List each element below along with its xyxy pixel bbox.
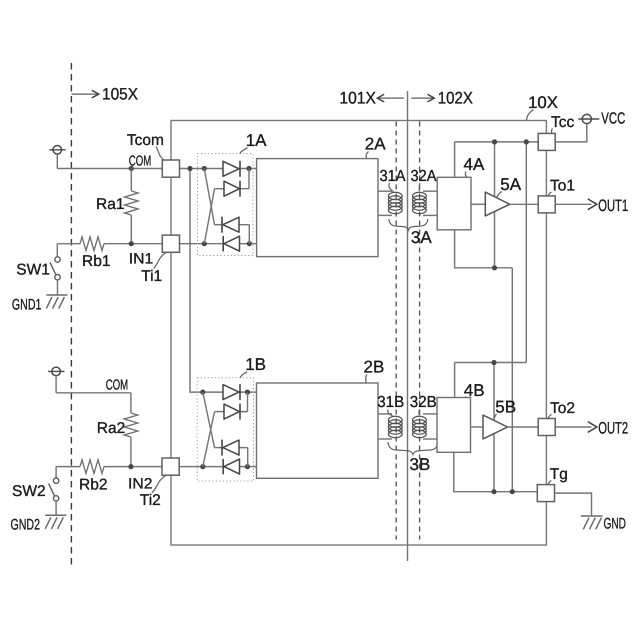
terminal Ti1 — [162, 235, 179, 252]
svg-text:IN2: IN2 — [128, 476, 153, 493]
wire 1B D2 anode stub — [215, 411, 225, 413]
node IN1 junction — [129, 241, 134, 246]
wire 1B cross diagonal lower-to-upper — [203, 412, 215, 467]
svg-text:4A: 4A — [464, 155, 485, 174]
junction 1B bottom-left — [200, 464, 205, 469]
diode 1A D4 — [224, 236, 240, 251]
resistor Ra1 — [130, 169, 132, 192]
svg-text:31B: 31B — [377, 394, 404, 411]
svg-text:Rb2: Rb2 — [79, 477, 107, 494]
wire 1A D2 anode stub — [215, 188, 225, 190]
wire 1B D2 cathode to top — [240, 392, 248, 412]
op-amp 5B — [483, 415, 508, 439]
junction COM drop — [187, 166, 192, 171]
svg-text:IN1: IN1 — [129, 251, 154, 268]
wire VCC to Tcc — [555, 124, 587, 142]
junction 1A top-left — [202, 166, 207, 171]
svg-text:Tg: Tg — [550, 466, 568, 483]
wire 32B bottom stub — [423, 438, 437, 440]
switch SW1 — [56, 244, 58, 257]
leader Tg — [548, 481, 551, 485]
diode 1B D1 — [223, 385, 239, 400]
diode bridge 1B dotted box — [197, 378, 253, 481]
leader Ti2 — [152, 476, 166, 493]
arrow 101X — [378, 97, 404, 99]
wire 5A output to To1 — [510, 203, 539, 205]
svg-text:Ti2: Ti2 — [140, 492, 161, 509]
svg-text:OUT2: OUT2 — [598, 420, 628, 438]
svg-text:1A: 1A — [246, 131, 267, 150]
wire 1A D3 anode to IN1 — [239, 225, 249, 244]
wire 31B bottom stub — [378, 438, 392, 440]
isolation dashed line left — [395, 122, 397, 540]
svg-text:105X: 105X — [102, 86, 138, 104]
svg-text:102X: 102X — [438, 88, 473, 107]
svg-text:31A: 31A — [380, 168, 406, 185]
transformer coil 31A — [388, 192, 402, 213]
diode bridge 1A dotted box — [198, 154, 254, 256]
wire 31A bottom stub — [378, 214, 392, 216]
arrow 102X — [411, 97, 434, 99]
wire Tcc rail horizontal — [455, 141, 539, 143]
ground GND1 — [46, 294, 67, 296]
leader 4A — [465, 172, 467, 178]
leader 32A — [418, 183, 421, 191]
terminal To2 — [538, 419, 555, 436]
diode 1B D2 — [224, 404, 240, 419]
wire 32B top stub — [423, 413, 437, 415]
svg-text:GND2: GND2 — [11, 517, 41, 534]
boundary dashed line 105X — [70, 63, 72, 567]
svg-text:Tcom: Tcom — [127, 132, 164, 149]
svg-text:2B: 2B — [364, 358, 385, 377]
wire 1A cross diagonal upper-to-lower — [204, 169, 214, 225]
terminal Tg — [537, 485, 554, 502]
svg-text:32B: 32B — [410, 394, 437, 411]
block 4B — [437, 398, 471, 453]
leader 2B — [366, 375, 367, 384]
svg-text:Ra2: Ra2 — [97, 420, 125, 437]
wire 1B D3 anode to IN2 — [239, 448, 248, 467]
resistor Rb1 — [80, 237, 104, 251]
svg-text:GND1: GND1 — [12, 296, 42, 313]
svg-text:10X: 10X — [528, 93, 558, 112]
wire IN1 internal — [180, 243, 257, 245]
wire 4A top feed — [454, 142, 456, 177]
svg-text:5A: 5A — [500, 175, 521, 194]
wire COM internal A — [180, 168, 257, 170]
terminal Ti2 — [162, 458, 179, 475]
junction Tg rail / channel A return — [510, 489, 515, 494]
svg-text:3B: 3B — [410, 455, 431, 474]
svg-text:SW1: SW1 — [16, 261, 50, 278]
brace transformer 3B — [388, 442, 438, 455]
svg-text:SW2: SW2 — [12, 483, 46, 500]
block 2B — [257, 383, 379, 478]
svg-text:OUT1: OUT1 — [598, 197, 628, 215]
wire 5A bias vertical — [494, 142, 496, 268]
wire 5B output to To2 — [508, 426, 539, 428]
leader 5A — [497, 192, 502, 198]
ground GND right — [581, 515, 603, 517]
terminal Tcc — [538, 133, 555, 150]
node IN2 junction — [128, 464, 133, 469]
wire COM line B — [56, 392, 131, 394]
wire 32A top stub — [423, 190, 437, 192]
node dot lower rail A — [492, 265, 497, 270]
wire circleB down — [55, 376, 57, 393]
terminal VCC circle — [582, 114, 591, 123]
wire COM drop to channel B — [190, 169, 257, 393]
wire IN2 line right — [104, 466, 162, 468]
leader Tcc — [551, 129, 552, 134]
wire 1A D2 cathode to COM — [240, 169, 249, 189]
wire Tcc to channel B drop — [525, 142, 527, 363]
junction Tg rail / 5B bias — [491, 489, 496, 494]
junction 1B top-right — [245, 390, 250, 395]
svg-text:2A: 2A — [365, 135, 386, 154]
leader 32B — [418, 410, 420, 416]
switch SW2 — [55, 467, 57, 478]
diode 1B D4 — [224, 459, 240, 474]
divider solid line between 101X and 102X — [407, 91, 409, 561]
wire 32A bottom stub — [423, 214, 437, 216]
leader 10X — [527, 110, 534, 121]
arrow leader to 105X — [71, 93, 97, 95]
wire COM line A — [57, 168, 162, 170]
svg-text:5B: 5B — [495, 398, 516, 417]
wire 4B bottom to Tg rail — [454, 452, 538, 491]
block 4A — [437, 177, 471, 230]
input terminal circle A — [53, 146, 62, 155]
resistor Ra2 — [130, 393, 132, 413]
wire 1A cross diagonal lower-to-upper — [204, 189, 214, 244]
svg-text:101X: 101X — [339, 88, 376, 107]
resistor Rb2 — [80, 460, 104, 474]
junction 1B top-left — [200, 390, 205, 395]
block 2A — [257, 159, 378, 257]
svg-text:COM: COM — [106, 378, 129, 394]
wire circleA down — [56, 154, 58, 168]
wire IN1 line right — [104, 243, 162, 245]
wire 4A bottom to lower rail — [455, 230, 513, 268]
leader 2A — [366, 152, 368, 159]
svg-text:3A: 3A — [411, 228, 432, 247]
brace transformer 3A — [389, 219, 428, 230]
input terminal circle B — [52, 367, 61, 376]
junction 1B bottom-right — [245, 464, 250, 469]
leader 5B — [494, 414, 497, 420]
IC outline 10X — [171, 121, 546, 546]
leader 4B — [465, 397, 468, 398]
junction Tcc rail / channel B feed — [524, 139, 529, 144]
transformer coil 32A — [413, 192, 427, 213]
ground GND2 — [45, 514, 66, 516]
svg-text:4B: 4B — [464, 381, 485, 400]
diode 1A D2 — [224, 181, 240, 196]
svg-text:Ti1: Ti1 — [141, 268, 162, 285]
wire IN2 line left — [56, 466, 80, 468]
junction 1A bottom-right — [247, 241, 252, 246]
wire 4B top feed — [454, 363, 456, 398]
svg-text:Rb1: Rb1 — [82, 253, 110, 270]
transformer coil 32B — [413, 416, 427, 437]
svg-text:To1: To1 — [550, 178, 575, 195]
junction 1A bottom-left — [202, 241, 207, 246]
wire channel B top rail — [455, 362, 527, 364]
node COM junction — [129, 166, 134, 171]
wire IN1 line left — [57, 243, 80, 245]
wire 4A to 5A — [471, 203, 485, 205]
diode 1B D3 — [223, 440, 239, 455]
svg-text:GND: GND — [604, 516, 627, 533]
leader 1A — [240, 148, 248, 154]
junction Tcc rail / 5A bias — [492, 139, 497, 144]
junction 1A top-right — [246, 166, 251, 171]
leader To2 — [548, 414, 552, 418]
isolation dashed line right — [419, 122, 421, 540]
svg-text:1B: 1B — [245, 355, 266, 374]
svg-text:Tcc: Tcc — [551, 114, 575, 131]
leader Tcom — [156, 147, 165, 162]
wire 1B cross diagonal upper-to-lower — [203, 392, 215, 448]
leader 1B — [240, 372, 247, 378]
wire 31B top stub — [378, 413, 392, 415]
wire 5B bias vertical — [493, 363, 495, 492]
wire 31A top stub — [378, 190, 392, 192]
svg-text:32A: 32A — [411, 168, 437, 185]
node dot channel B top rail — [491, 360, 496, 365]
wire Tg to ground — [555, 493, 592, 515]
leader To1 — [548, 192, 552, 196]
op-amp 5A — [485, 192, 509, 216]
leader 31B — [388, 410, 393, 416]
wire 1B D3 cathode stub — [215, 447, 223, 449]
leader Ti1 — [154, 253, 167, 269]
wire 1A D3 cathode stub — [215, 224, 223, 226]
svg-text:To2: To2 — [550, 400, 575, 417]
diode 1A D1 — [223, 161, 239, 176]
transformer coil 31B — [388, 416, 402, 437]
wire channel A to Tg drop — [511, 268, 513, 492]
wire IN2 internal — [180, 466, 257, 468]
terminal Tcom — [162, 160, 179, 177]
leader 31A — [389, 183, 394, 192]
svg-text:VCC: VCC — [601, 111, 625, 128]
diode 1A D3 — [223, 217, 239, 232]
wire 4B to 5B — [471, 426, 484, 428]
svg-text:Ra1: Ra1 — [96, 196, 124, 213]
wire OUT1 — [555, 203, 591, 205]
wire OUT2 — [555, 426, 591, 428]
terminal To1 — [538, 196, 555, 213]
